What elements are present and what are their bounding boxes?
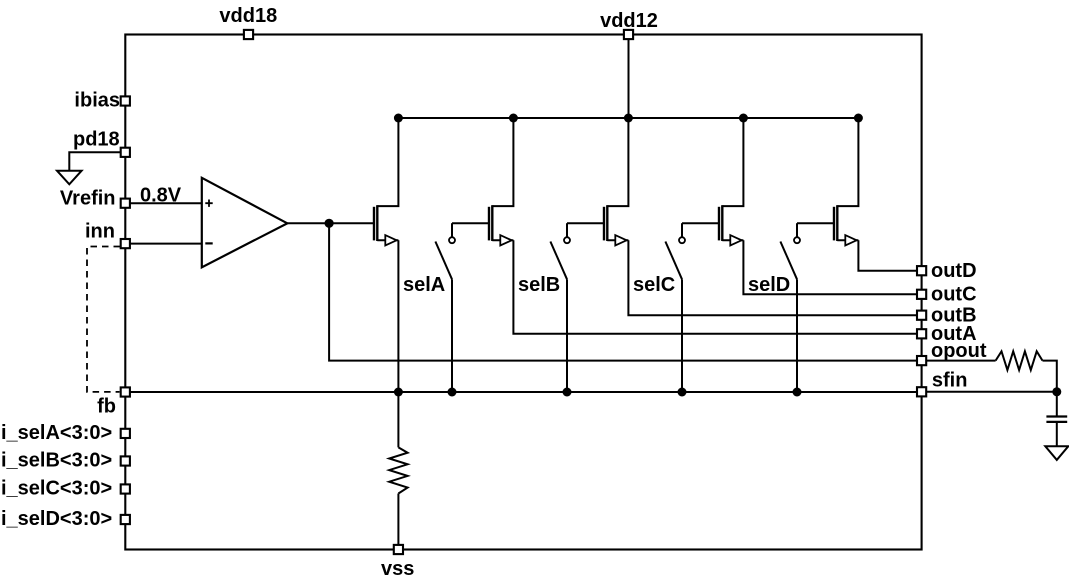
wire Vrefin to op-amp + input — [130, 202, 202, 204]
svg-text:i_selA<3:0>: i_selA<3:0> — [1, 422, 112, 444]
transistor M2 source lead to rail — [492, 118, 513, 206]
wire current-mirror source rail — [398, 117, 858, 119]
svg-text:opout: opout — [931, 340, 987, 362]
pin i_selD<3:0> — [121, 515, 130, 524]
ground symbol at C1 — [1045, 446, 1068, 460]
node rail junction 2 — [509, 114, 518, 123]
wire inn to op-amp - input — [130, 243, 202, 245]
transistor M1 gate bar — [373, 207, 375, 241]
op-amp U1 — [202, 178, 287, 267]
svg-text:inn: inn — [85, 221, 115, 243]
switch selC blade — [665, 242, 682, 280]
wire switch selB to M3 gate — [567, 222, 604, 224]
transistor M3 arrow — [615, 235, 626, 245]
transistor M2 drain lead — [492, 239, 513, 241]
node fb row junction 3 — [563, 388, 572, 397]
wire fb row (fb pin to sfin pin) — [130, 391, 917, 393]
pin sfin — [917, 387, 926, 396]
pin pd18 — [121, 148, 130, 157]
svg-text:selC: selC — [633, 274, 675, 296]
pin outD — [917, 266, 926, 275]
node rail junction 1 — [394, 114, 403, 123]
wire outer boundary box — [125, 35, 921, 550]
wire dashed feedback inn to fb — [87, 247, 120, 392]
pin opout — [917, 356, 926, 365]
transistor M1 source lead to rail — [377, 118, 398, 206]
svg-text:selA: selA — [403, 274, 445, 296]
switch selD blade — [780, 242, 797, 280]
pin outB — [917, 311, 926, 320]
switch selA top stub — [451, 223, 453, 237]
pin inn — [121, 239, 130, 248]
wire M3 drain to outB — [628, 240, 916, 315]
switch selD contact circle — [794, 237, 800, 243]
transistor M5 channel bar — [836, 205, 838, 241]
pin Vrefin — [121, 199, 130, 208]
node fb row junction 2 — [448, 388, 457, 397]
svg-text:0.8V: 0.8V — [140, 185, 182, 207]
wire switch selC bottom to fb row — [681, 279, 683, 392]
pin vss — [394, 545, 403, 554]
wire R1 to vss pin — [397, 494, 399, 550]
node fb row junction 1 — [394, 388, 403, 397]
transistor M3 channel bar — [606, 205, 608, 241]
pin vdd18 — [244, 30, 253, 39]
wire switch selD to M5 gate — [797, 222, 834, 224]
switch selA blade — [435, 242, 452, 280]
capacitor C1 — [1046, 417, 1067, 422]
svg-text:outC: outC — [931, 284, 977, 306]
op-amp - input mark — [205, 242, 212, 244]
svg-text:vss: vss — [381, 558, 414, 580]
switch selB contact circle — [564, 237, 570, 243]
node rail junction 5 — [854, 114, 863, 123]
transistor M1 arrow — [385, 235, 396, 245]
wire fb node down to R1 — [397, 392, 399, 447]
transistor M4 channel bar — [721, 205, 723, 241]
wire switch selB bottom to fb row — [566, 279, 568, 392]
svg-text:i_selB<3:0>: i_selB<3:0> — [1, 450, 112, 472]
wire pd18 to ground — [69, 152, 120, 170]
wire vdd12 drop from pin to mirror rail — [628, 40, 630, 118]
pin fb — [121, 387, 130, 396]
wire R2 to sfin node — [1043, 361, 1057, 392]
switch selA contact circle — [449, 237, 455, 243]
wire sfin pin to node — [927, 391, 1057, 393]
node op-amp output junction — [325, 219, 334, 228]
transistor M3 source lead to rail — [607, 118, 628, 206]
svg-text:selB: selB — [518, 274, 560, 296]
pin ibias — [121, 96, 130, 105]
resistor R2 — [996, 351, 1043, 370]
transistor M5 drain lead — [837, 239, 858, 241]
transistor M2 channel bar — [491, 205, 493, 241]
switch selB blade — [550, 242, 567, 280]
switch selC contact circle — [679, 237, 685, 243]
svg-text:fb: fb — [97, 396, 116, 418]
ground symbol at pd18 — [57, 171, 82, 185]
transistor M1 channel bar — [376, 205, 378, 241]
wire op-amp output down to opout row — [329, 223, 916, 360]
transistor M3 gate bar — [603, 207, 605, 241]
svg-text:i_selD<3:0>: i_selD<3:0> — [1, 508, 112, 530]
resistor R1 — [389, 447, 407, 493]
pin outC — [917, 290, 926, 299]
transistor M1 drain lead — [377, 239, 398, 241]
transistor M2 arrow — [500, 235, 511, 245]
transistor M5 source lead to rail — [837, 118, 858, 206]
wire C1 to ground — [1056, 422, 1058, 446]
pin i_selC<3:0> — [121, 484, 130, 493]
pin outA — [917, 329, 926, 338]
wire switch selC to M4 gate — [682, 222, 719, 224]
svg-text:outD: outD — [931, 260, 977, 282]
wire opout pin to R2 — [927, 360, 996, 362]
wire M4 drain to outC — [743, 240, 916, 294]
pin vdd12 — [624, 30, 633, 39]
transistor M4 source lead to rail — [722, 118, 743, 206]
node fb row junction 5 — [793, 388, 802, 397]
pin i_selB<3:0> — [121, 456, 130, 465]
switch selC top stub — [681, 223, 683, 237]
node rail junction 3 — [624, 114, 633, 123]
wire switch selD bottom to fb row — [796, 279, 798, 392]
wire sfin node to C1 — [1056, 392, 1058, 417]
transistor M2 gate bar — [488, 207, 490, 241]
svg-text:i_selC<3:0>: i_selC<3:0> — [1, 478, 112, 500]
transistor M3 drain lead — [607, 239, 628, 241]
svg-text:selD: selD — [748, 274, 790, 296]
wire switch selA to M2 gate — [452, 222, 489, 224]
wire op-amp output to M1 gate — [287, 222, 374, 224]
node rail junction 4 — [739, 114, 748, 123]
svg-text:vdd18: vdd18 — [219, 5, 277, 27]
wire M2 drain to outA — [513, 240, 916, 333]
transistor M4 drain lead — [722, 239, 743, 241]
switch selB top stub — [566, 223, 568, 237]
pin i_selA<3:0> — [121, 429, 130, 438]
node sfin junction — [1052, 387, 1061, 396]
svg-text:sfin: sfin — [932, 369, 968, 391]
svg-text:vdd12: vdd12 — [600, 10, 658, 32]
transistor M4 gate bar — [718, 207, 720, 241]
transistor M4 arrow — [730, 235, 741, 245]
svg-text:Vrefin: Vrefin — [60, 188, 116, 210]
svg-text:ibias: ibias — [74, 90, 120, 112]
wire switch selA bottom to fb row — [451, 279, 453, 392]
transistor M5 gate bar — [833, 207, 835, 241]
switch selD top stub — [796, 223, 798, 237]
op-amp + input mark — [205, 200, 212, 207]
transistor M5 arrow — [845, 235, 856, 245]
svg-text:pd18: pd18 — [73, 129, 120, 151]
node fb row junction 4 — [678, 388, 687, 397]
wire M1 drain down to fb node — [397, 240, 399, 392]
wire M5 drain to outD — [858, 240, 916, 270]
